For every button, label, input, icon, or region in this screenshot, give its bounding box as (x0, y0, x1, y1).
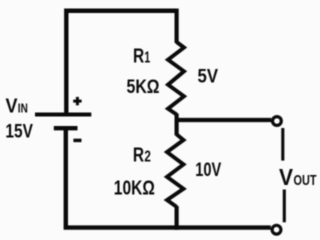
svg-text:2: 2 (144, 149, 151, 166)
svg-text:OUT: OUT (294, 172, 317, 189)
svg-text:15V: 15V (5, 121, 33, 143)
svg-text:5V: 5V (198, 66, 219, 88)
svg-text:10V: 10V (195, 159, 221, 181)
svg-text:R: R (133, 145, 144, 167)
svg-text:IN: IN (18, 102, 28, 116)
svg-text:V: V (279, 164, 294, 190)
svg-text:1: 1 (144, 50, 150, 67)
svg-text:5KΩ: 5KΩ (127, 76, 160, 98)
svg-text:10KΩ: 10KΩ (114, 178, 155, 200)
svg-text:R: R (133, 46, 144, 68)
svg-text:V: V (6, 96, 19, 118)
